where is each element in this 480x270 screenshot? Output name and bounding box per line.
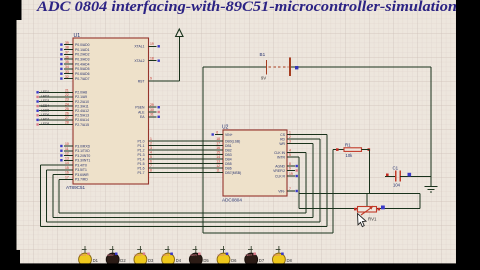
svg-text:P3.6/WR: P3.6/WR <box>75 173 89 177</box>
svg-text:24: 24 <box>65 102 69 106</box>
svg-text:104: 104 <box>393 183 401 188</box>
U1 P0 net-label marks <box>60 43 62 79</box>
svg-text:P2.5/A13: P2.5/A13 <box>75 114 89 118</box>
U2 right pin name labels <box>273 133 286 194</box>
wire C1 left lead <box>385 176 396 178</box>
svg-text:ALE: ALE <box>138 110 145 114</box>
U1 P3 pin name labels <box>75 144 91 181</box>
svg-text:6: 6 <box>216 130 218 134</box>
svg-text:LED3: LED3 <box>41 99 49 103</box>
U1 XTAL1 pin stub <box>149 42 157 46</box>
svg-text:D6: D6 <box>231 258 237 263</box>
wires U2 CS/RD/WR/CLKIN to rails <box>287 135 327 227</box>
U1 XTAL2 label <box>134 59 144 63</box>
U1 P1 pin name labels <box>138 139 145 175</box>
U2 VREF/2 net mark <box>287 169 298 171</box>
svg-text:P1.5: P1.5 <box>138 162 145 166</box>
svg-text:P0.2/AD2: P0.2/AD2 <box>75 53 90 57</box>
U1 RST label <box>138 79 145 83</box>
U1 XTAL1 label <box>134 45 144 49</box>
svg-text:LED8: LED8 <box>273 253 280 257</box>
svg-text:P2.4/A12: P2.4/A12 <box>75 109 89 113</box>
U2 reference label <box>222 125 229 131</box>
U2 left pin name labels <box>225 133 241 175</box>
vertical wire R1 right down <box>369 150 371 194</box>
wire R1 left lead <box>333 149 344 151</box>
LED cathode bars <box>82 249 281 251</box>
svg-text:23: 23 <box>65 98 69 102</box>
U1 P2 pin wires with net labels <box>39 92 73 124</box>
svg-text:P0.6/AD6: P0.6/AD6 <box>75 72 90 76</box>
svg-text:33: 33 <box>65 70 69 74</box>
svg-text:XTAL1: XTAL1 <box>134 45 144 49</box>
svg-text:U1: U1 <box>74 33 81 39</box>
vertical wire right edge down to C1 rail <box>430 67 432 186</box>
svg-text:P2.2/A10: P2.2/A10 <box>75 100 89 104</box>
U1 PSEN pin <box>135 103 160 110</box>
svg-text:18: 18 <box>150 56 154 60</box>
svg-text:RST: RST <box>138 79 145 83</box>
letterbox bottom bar <box>0 263 480 270</box>
RV1 right pin dot <box>378 208 381 211</box>
svg-text:35: 35 <box>65 60 69 64</box>
svg-text:DB2: DB2 <box>225 148 232 152</box>
svg-text:P2.0/A8: P2.0/A8 <box>75 91 87 95</box>
svg-text:P1.0: P1.0 <box>138 139 145 143</box>
U2 CLK R pin stub <box>287 175 298 177</box>
svg-text:P3.2/INT0: P3.2/INT0 <box>75 154 90 158</box>
U1 reference label <box>74 33 81 39</box>
svg-text:LED8: LED8 <box>41 122 49 126</box>
svg-text:25: 25 <box>65 107 69 111</box>
battery B1 left plate <box>266 60 268 75</box>
svg-text:12: 12 <box>65 152 69 156</box>
LED reference labels D1-D8 <box>93 258 293 263</box>
svg-text:P3.0/RXD: P3.0/RXD <box>75 144 91 148</box>
svg-text:P3.1/TXD: P3.1/TXD <box>75 149 90 153</box>
svg-text:LED2: LED2 <box>107 253 114 257</box>
svg-text:PSEN: PSEN <box>135 106 145 110</box>
svg-text:39: 39 <box>65 41 69 45</box>
svg-text:R1: R1 <box>345 143 351 148</box>
svg-text:VREF/2: VREF/2 <box>273 169 285 173</box>
wire R1 right lead <box>362 149 370 151</box>
svg-text:P2.1/A9: P2.1/A9 <box>75 95 87 99</box>
ground symbol <box>425 177 438 193</box>
svg-text:10k: 10k <box>346 153 354 158</box>
letterbox bottom-left notch <box>0 250 20 270</box>
svg-text:P3.7/RD: P3.7/RD <box>75 178 88 182</box>
svg-text:EA: EA <box>140 115 145 119</box>
microcontroller U1 body <box>73 38 149 184</box>
U2 AGND net mark <box>287 165 298 167</box>
svg-text:CLK R: CLK R <box>275 174 286 178</box>
U1 XTAL1 net mark <box>158 45 160 47</box>
vertical wire clock node to pot rail <box>419 194 421 209</box>
svg-text:37: 37 <box>65 51 69 55</box>
svg-text:P2.7/A15: P2.7/A15 <box>75 123 89 127</box>
C1 right net mark <box>408 173 412 177</box>
wire battery left to node <box>203 66 266 68</box>
svg-text:B1: B1 <box>260 52 266 57</box>
svg-text:29: 29 <box>150 103 154 107</box>
ADC U2 body <box>223 130 287 196</box>
svg-text:11: 11 <box>65 147 69 151</box>
RV1 left pin dot <box>354 208 357 211</box>
svg-text:WR: WR <box>279 142 285 146</box>
LED lead wires <box>85 246 279 254</box>
svg-text:U2: U2 <box>222 125 229 131</box>
svg-text:9: 9 <box>150 77 152 81</box>
svg-text:LED7: LED7 <box>245 253 252 257</box>
svg-text:D1: D1 <box>93 258 99 263</box>
title text <box>36 0 457 15</box>
svg-text:P1.2: P1.2 <box>138 148 145 152</box>
vertical wire R1 left down <box>332 150 334 234</box>
capacitor C1 left plate <box>395 171 397 182</box>
power +5V arrow <box>176 29 183 37</box>
svg-text:27: 27 <box>65 116 69 120</box>
svg-text:22: 22 <box>65 93 69 97</box>
svg-text:ADC 0804 interfacing-with-89C5: ADC 0804 interfacing-with-89C51-microcon… <box>36 0 457 15</box>
wire pot right to corner <box>377 208 421 210</box>
svg-text:30: 30 <box>150 108 154 112</box>
svg-text:VIN-: VIN- <box>278 189 285 193</box>
wire U2 INTR to pot rail <box>287 157 299 209</box>
U2 value label ADC0804 <box>222 198 242 203</box>
LED net-label marks <box>79 253 284 258</box>
svg-text:DB5: DB5 <box>225 162 232 166</box>
svg-text:DB3: DB3 <box>225 153 232 157</box>
wire C1 right lead <box>400 176 431 178</box>
svg-text:D3: D3 <box>148 258 154 263</box>
svg-text:P1.1: P1.1 <box>138 144 145 148</box>
svg-text:9V: 9V <box>261 76 266 81</box>
svg-text:P3.5/T1: P3.5/T1 <box>75 168 87 172</box>
svg-text:P1.6: P1.6 <box>138 166 145 170</box>
C1 value label 104 <box>393 183 401 188</box>
resistor R1 body <box>344 148 362 152</box>
svg-text:P0.0/AD0: P0.0/AD0 <box>75 43 90 47</box>
svg-text:LED5: LED5 <box>41 108 49 112</box>
svg-text:31: 31 <box>150 113 154 117</box>
R1 right pin dot <box>368 148 371 151</box>
U2 right pin numbers <box>289 131 293 192</box>
svg-text:C1: C1 <box>393 166 399 171</box>
RV1 wiper arrow <box>361 206 373 215</box>
svg-text:P0.1/AD1: P0.1/AD1 <box>75 48 90 52</box>
battery B1 label <box>260 52 266 57</box>
svg-text:P0.3/AD3: P0.3/AD3 <box>75 57 90 61</box>
letterbox left top notch <box>0 0 22 20</box>
svg-text:LED1: LED1 <box>41 90 49 94</box>
svg-text:D8: D8 <box>287 258 293 263</box>
wire +5V to RST horizontal <box>157 80 180 82</box>
svg-text:DB0(LSB): DB0(LSB) <box>225 139 240 143</box>
battery B1 right plate <box>289 58 291 77</box>
svg-text:RD: RD <box>280 137 285 141</box>
svg-text:LED5: LED5 <box>190 253 197 257</box>
U1 EA pin <box>140 113 160 120</box>
svg-text:RV1: RV1 <box>368 217 377 222</box>
svg-text:38: 38 <box>65 46 69 50</box>
svg-text:LED4: LED4 <box>162 253 169 257</box>
svg-text:CLK IN: CLK IN <box>274 151 285 155</box>
svg-text:13: 13 <box>65 156 69 160</box>
capacitor C1 right plate <box>399 171 401 182</box>
battery B1 value label <box>261 76 266 81</box>
RV1 net mark <box>381 206 385 210</box>
svg-text:P2.6/A14: P2.6/A14 <box>75 118 89 122</box>
svg-text:10: 10 <box>65 142 69 146</box>
vertical wire from battery node down <box>202 67 204 233</box>
U1 RST pin stub <box>149 77 157 81</box>
svg-text:P1.3: P1.3 <box>138 153 145 157</box>
RV1 reference label <box>368 217 377 222</box>
svg-text:D5: D5 <box>203 258 209 263</box>
svg-text:LED7: LED7 <box>41 118 49 122</box>
U1 P2 pin numbers 21-28 <box>65 89 69 125</box>
U1 P0 pin stubs <box>64 45 73 79</box>
wire +5V to RST vertical <box>178 37 180 82</box>
svg-text:28: 28 <box>65 121 69 125</box>
svg-text:ADC0804: ADC0804 <box>222 198 242 203</box>
svg-text:P3.3/INT1: P3.3/INT1 <box>75 159 90 163</box>
svg-text:D4: D4 <box>176 258 182 263</box>
svg-text:DB6: DB6 <box>225 166 232 170</box>
svg-text:32: 32 <box>65 75 69 79</box>
wire battery right to corner <box>290 66 431 68</box>
U1 P2 wire net-label texts <box>41 90 49 126</box>
svg-text:P1.4: P1.4 <box>138 157 145 161</box>
svg-text:P0.7/AD7: P0.7/AD7 <box>75 77 90 81</box>
U1 P3 pin numbers 10-17 <box>65 142 69 179</box>
svg-text:XTAL2: XTAL2 <box>134 59 144 63</box>
potentiometer RV1 body <box>358 207 377 213</box>
U1 XTAL2 net mark <box>158 60 160 62</box>
C1 reference label <box>393 166 399 171</box>
wire pot wiper riser <box>366 194 368 207</box>
left staircase vertical wires <box>41 165 59 227</box>
svg-text:AGND: AGND <box>275 164 285 168</box>
U1 P2 wire end marks <box>36 91 38 126</box>
pot feed rail <box>299 208 358 210</box>
svg-text:P0.5/AD5: P0.5/AD5 <box>75 67 90 71</box>
svg-text:P2.3/A11: P2.3/A11 <box>75 104 89 108</box>
svg-text:P3.4/T0: P3.4/T0 <box>75 163 87 167</box>
U1 P0 pin numbers 39-32 <box>65 41 69 79</box>
svg-text:LED1: LED1 <box>79 253 86 257</box>
R1 value label 10k <box>346 153 354 158</box>
U2 VIN- pin stub <box>287 190 298 192</box>
svg-text:AT89C51: AT89C51 <box>66 185 86 190</box>
svg-text:26: 26 <box>65 112 69 116</box>
svg-text:P1.7: P1.7 <box>138 171 145 175</box>
U1 ALE pin <box>138 108 160 115</box>
svg-text:LED6: LED6 <box>218 253 225 257</box>
svg-text:21: 21 <box>65 89 69 93</box>
svg-text:DB1: DB1 <box>225 144 232 148</box>
battery origin marker <box>295 66 298 69</box>
wires U1 P3.4-P3.7 to left staircase <box>41 165 73 179</box>
U2 VIN+ pin stub <box>212 130 224 135</box>
svg-text:34: 34 <box>65 65 69 69</box>
U1 P0 pin name labels <box>75 43 90 81</box>
LED bus horizontal rails <box>41 213 327 227</box>
U1 P3.0-P3.3 pin stubs <box>64 146 73 160</box>
letterbox right bar <box>456 0 480 270</box>
letterbox left bar <box>0 0 17 270</box>
U1 XTAL2 pin stub <box>149 56 157 60</box>
mouse cursor <box>358 214 367 227</box>
U1 value label AT89C51 <box>66 185 86 190</box>
R1 left pin dot <box>336 148 339 151</box>
svg-text:VIN+: VIN+ <box>225 133 233 137</box>
bottom rail from battery branch <box>203 232 333 234</box>
svg-text:LED2: LED2 <box>41 95 49 99</box>
svg-text:DB7(MSB): DB7(MSB) <box>225 171 241 175</box>
U1 P2 pin name labels <box>75 91 89 127</box>
C1 left pin mark <box>386 174 389 177</box>
U1 P3.0-P3.3 net-label marks <box>60 145 62 162</box>
svg-text:D7: D7 <box>259 258 265 263</box>
svg-text:P0.4/AD4: P0.4/AD4 <box>75 62 90 66</box>
svg-text:DB4: DB4 <box>225 157 232 161</box>
svg-text:LED6: LED6 <box>41 113 49 117</box>
svg-text:19: 19 <box>150 42 154 46</box>
U1 P1 pin numbers 1-8 <box>150 137 152 173</box>
svg-text:36: 36 <box>65 55 69 59</box>
LED diodes D1-D8 <box>79 253 286 266</box>
svg-text:LED4: LED4 <box>41 104 49 108</box>
data bus wires U1 P1 to U2 DB <box>149 141 224 173</box>
R1 reference label <box>345 143 351 148</box>
clock node wire <box>299 193 420 195</box>
svg-text:D2: D2 <box>120 258 126 263</box>
U2 data pin numbers <box>216 137 220 173</box>
battery B1 dashes <box>269 66 289 68</box>
svg-text:LED3: LED3 <box>134 253 141 257</box>
svg-text:CS: CS <box>280 133 285 137</box>
svg-text:INTR: INTR <box>277 155 285 159</box>
